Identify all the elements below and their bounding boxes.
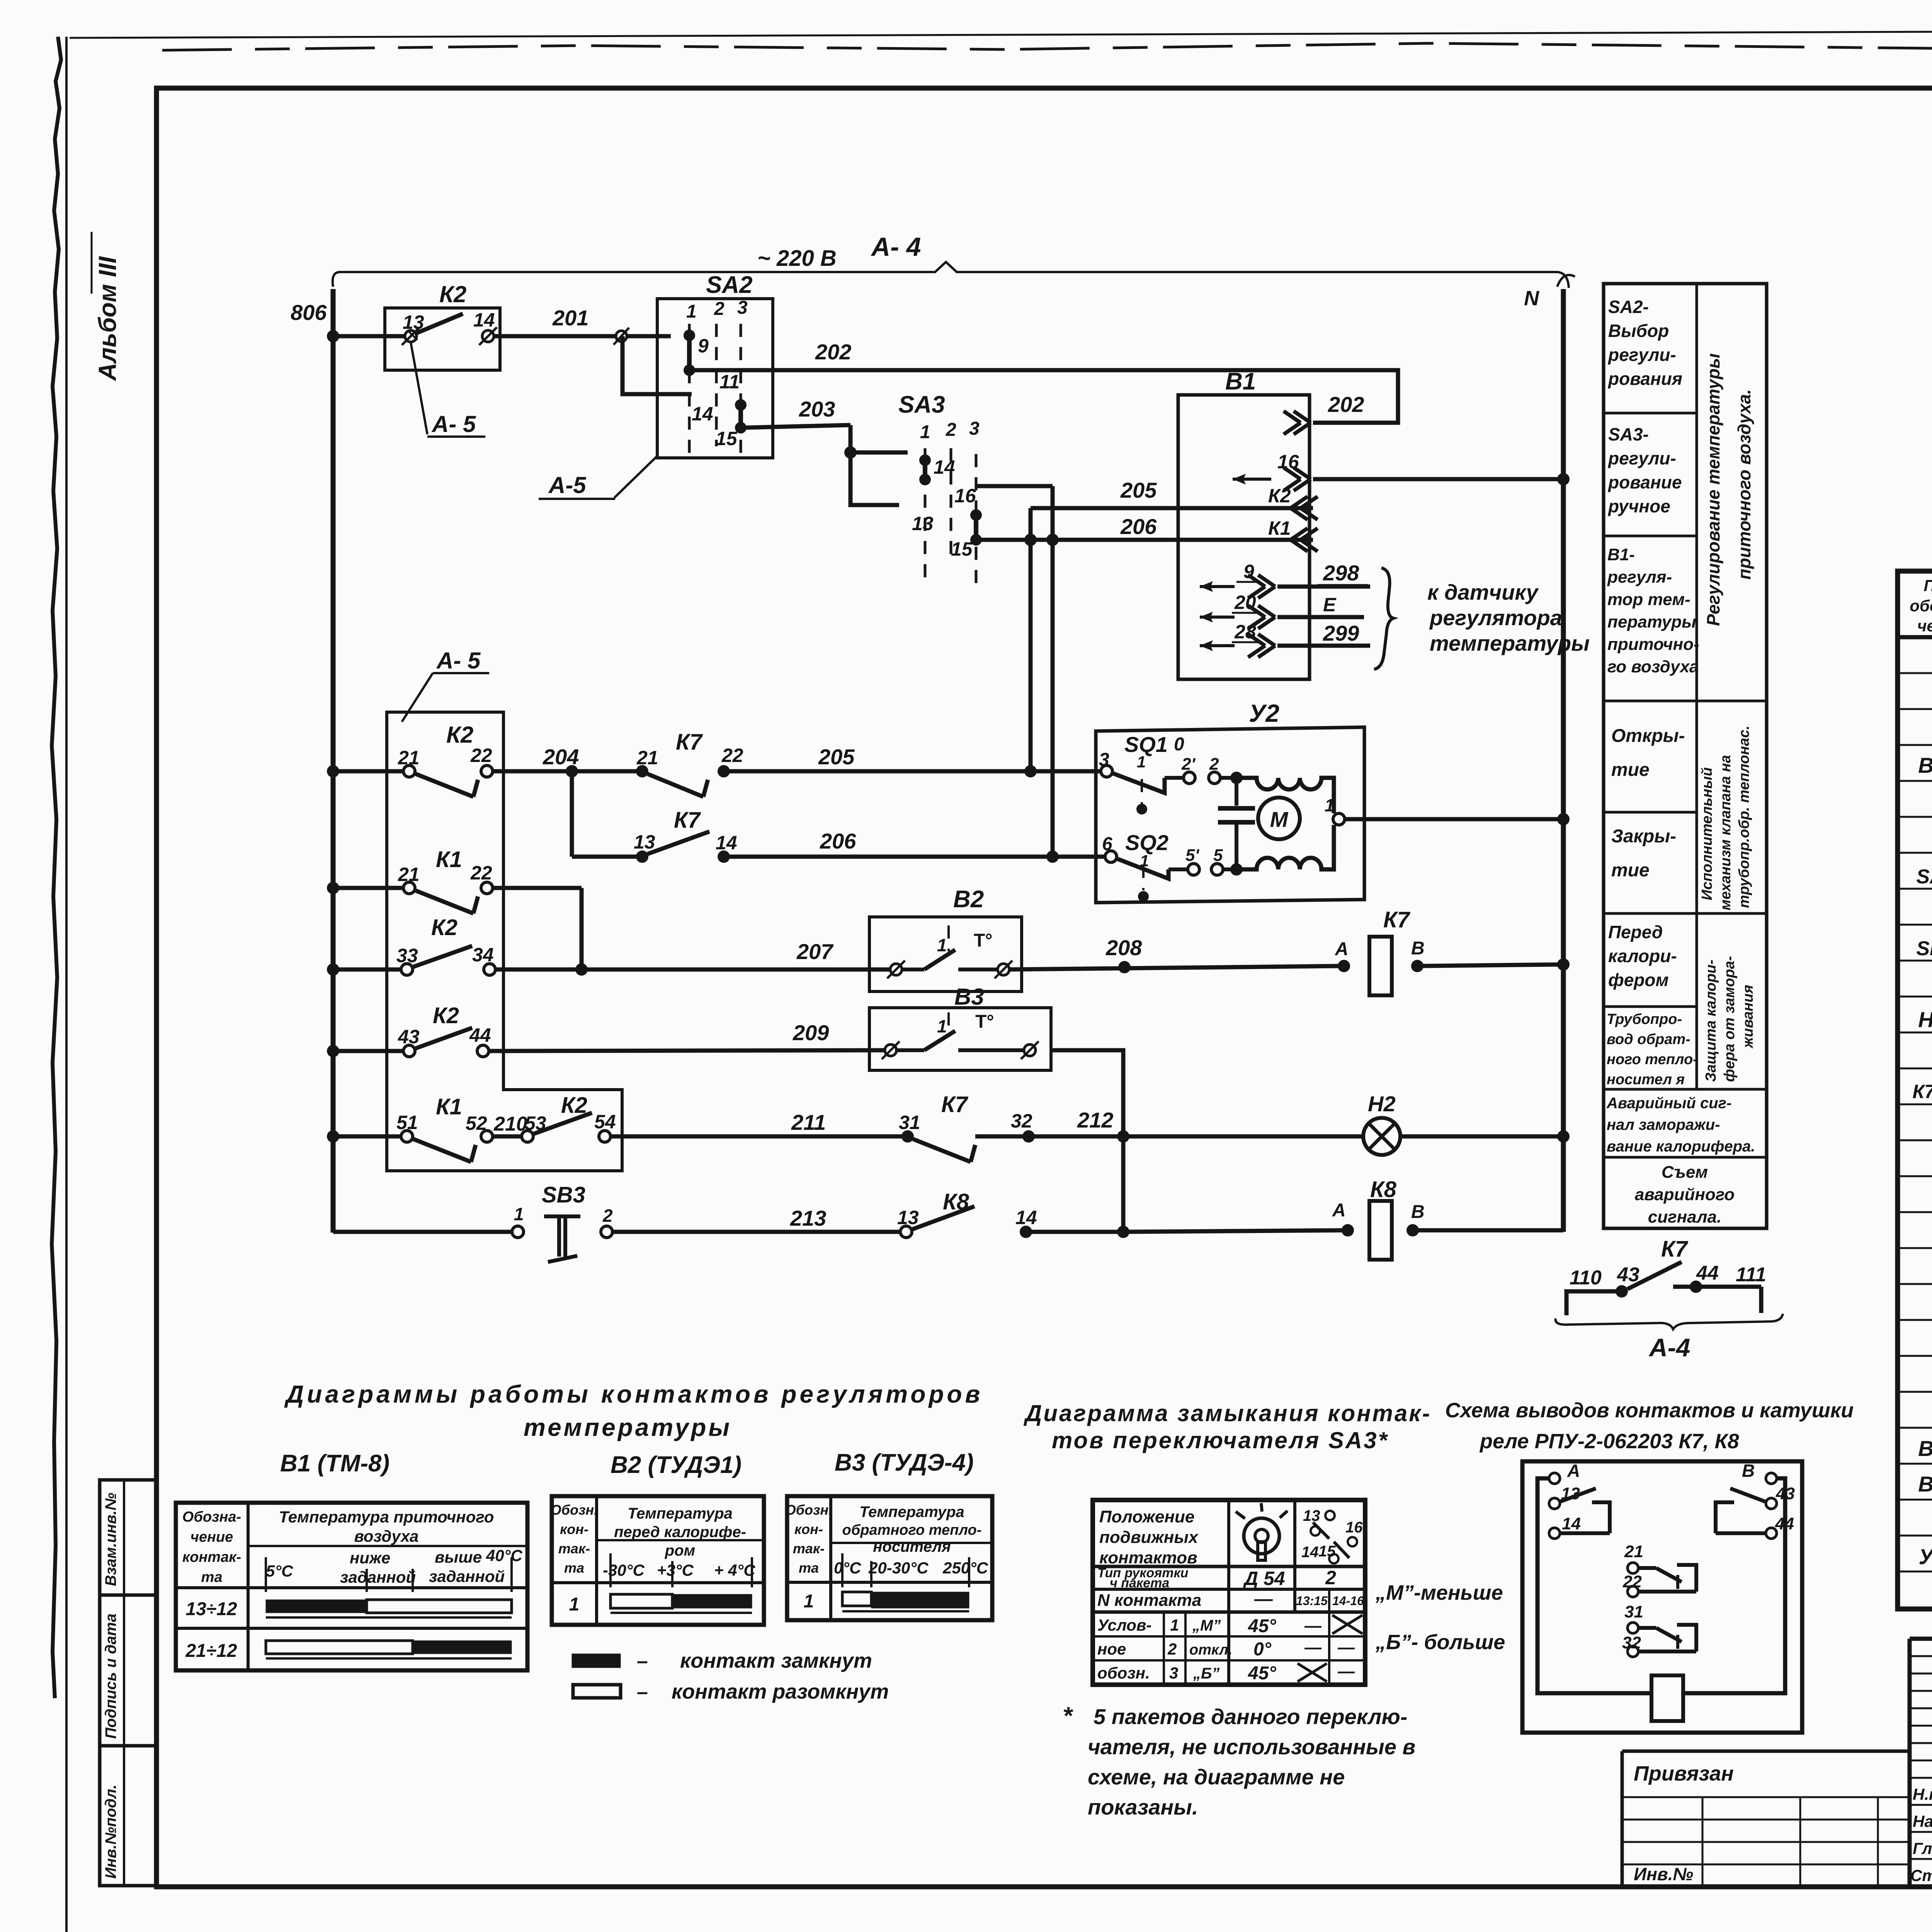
- svg-text:Подпись и дата: Подпись и дата: [102, 1614, 119, 1739]
- svg-text:SА3: SА3: [1916, 866, 1932, 888]
- wire 201: [526, 334, 671, 338]
- SA2 contact col3: [735, 399, 747, 411]
- wire 209: [489, 1050, 890, 1051]
- svg-text:1: 1: [937, 1016, 947, 1036]
- svg-text:20: 20: [1234, 592, 1256, 613]
- svg-text:тие: тие: [1611, 860, 1650, 881]
- svg-text:А: А: [1332, 1200, 1346, 1221]
- svg-text:11: 11: [719, 371, 740, 393]
- svg-text:43: 43: [398, 1026, 420, 1048]
- svg-text:14: 14: [716, 832, 737, 854]
- svg-text:14: 14: [1562, 1514, 1581, 1533]
- svg-text:213: 213: [790, 1206, 826, 1230]
- rung4 wire from bus: [333, 1049, 403, 1053]
- svg-text:А- 5: А- 5: [431, 411, 476, 437]
- svg-text:3: 3: [1169, 1664, 1178, 1682]
- svg-text:~ 220 В: ~ 220 В: [757, 246, 837, 271]
- svg-text:22: 22: [1622, 1572, 1642, 1591]
- B1 pin 28 output: [1200, 644, 1235, 647]
- svg-text:В2: В2: [953, 886, 984, 913]
- svg-text:5°С: 5°С: [266, 1562, 293, 1580]
- B2 diagram col line: [595, 1496, 598, 1625]
- svg-text:В2: В2: [1918, 1436, 1932, 1461]
- svg-text:У2: У2: [1918, 1544, 1932, 1569]
- svg-text:14: 14: [1015, 1207, 1037, 1228]
- svg-text:кон-: кон-: [560, 1521, 588, 1537]
- svg-text:перед калорифе-: перед калорифе-: [614, 1524, 746, 1541]
- svg-text:14: 14: [473, 309, 495, 331]
- svg-text:1: 1: [1170, 1616, 1179, 1634]
- svg-text:208: 208: [1105, 935, 1142, 960]
- svg-text:ром: ром: [665, 1542, 695, 1559]
- svg-text:806: 806: [291, 300, 327, 325]
- wire 202: [689, 370, 1398, 423]
- thermostat B3 box: [869, 1008, 1051, 1070]
- svg-text:Поз.: Поз.: [1924, 577, 1932, 595]
- SA3 diagram subcol lines: [1163, 1612, 1165, 1685]
- box А-5 around relay contacts: [387, 712, 622, 1171]
- svg-text:1: 1: [686, 301, 697, 322]
- SA3 contact 14 (col1): [919, 454, 931, 466]
- svg-text:А: А: [1335, 939, 1349, 959]
- svg-text:51: 51: [396, 1112, 418, 1133]
- contact K2 21-22: [403, 765, 415, 777]
- relay РПУ box: [1522, 1461, 1802, 1733]
- thermostat B2 box: [869, 917, 1022, 992]
- svg-text:28: 28: [1234, 621, 1256, 643]
- svg-text:—: —: [1304, 1638, 1322, 1657]
- svg-text:Д 54: Д 54: [1243, 1568, 1285, 1589]
- svg-text:Закры-: Закры-: [1611, 826, 1676, 847]
- svg-text:-30°С: -30°С: [603, 1561, 645, 1579]
- svg-text:А-4: А-4: [1648, 1333, 1690, 1362]
- svg-text:„Б”- больше: „Б”- больше: [1375, 1631, 1505, 1654]
- brace А-4 bottom: [1556, 1314, 1783, 1329]
- svg-text:0°С: 0°С: [834, 1559, 861, 1577]
- B3 diagram header bottom: [787, 1581, 992, 1584]
- title block sig rows: [1910, 1777, 1932, 1779]
- SA3 contact 15 (col3): [970, 509, 982, 521]
- svg-text:В3: В3: [1918, 1472, 1932, 1496]
- function table row lines: [1604, 412, 1697, 415]
- wire 211: [611, 1134, 908, 1139]
- svg-text:та: та: [799, 1560, 819, 1576]
- svg-text:0°: 0°: [1253, 1639, 1272, 1660]
- svg-text:22: 22: [721, 745, 743, 766]
- svg-text:Защита калори-: Защита калори-: [1703, 959, 1719, 1082]
- contact 43-44 (РПУ): [1766, 1498, 1777, 1509]
- svg-text:*: *: [1063, 1702, 1073, 1730]
- SA3 mark row3: [1298, 1663, 1327, 1682]
- svg-text:К2: К2: [446, 722, 473, 748]
- svg-text:+ 4°С: + 4°С: [714, 1561, 755, 1579]
- lamp H2: [1363, 1118, 1400, 1155]
- contact 13-14 (РПУ): [1549, 1498, 1560, 1509]
- svg-text:В: В: [1742, 1461, 1755, 1481]
- B1 diagram header bottom: [176, 1586, 527, 1589]
- svg-text:2: 2: [1167, 1640, 1177, 1658]
- svg-text:204: 204: [543, 745, 579, 769]
- svg-text:1: 1: [920, 422, 930, 442]
- svg-text:2: 2: [714, 299, 724, 319]
- svg-text:SА2-: SА2-: [1608, 297, 1649, 317]
- svg-text:9: 9: [1243, 561, 1254, 582]
- svg-text:регулятора: регулятора: [1429, 605, 1562, 630]
- svg-text:9: 9: [698, 335, 709, 357]
- B1 pin 202 chevron: [1284, 411, 1311, 434]
- svg-text:обозн.: обозн.: [1097, 1664, 1150, 1682]
- svg-text:Перед: Перед: [1608, 922, 1663, 942]
- svg-text:110: 110: [1570, 1267, 1602, 1289]
- wire 205 horizontal: [1031, 506, 1313, 510]
- svg-text:34: 34: [472, 944, 494, 966]
- svg-text:К7: К7: [674, 808, 701, 833]
- contact 31-32 (РПУ): [1628, 1622, 1638, 1633]
- svg-text:контакт замкнут: контакт замкнут: [680, 1649, 872, 1672]
- svg-text:21÷12: 21÷12: [185, 1641, 237, 1661]
- svg-text:чателя, не использованные в: чателя, не использованные в: [1088, 1735, 1415, 1759]
- svg-text:202: 202: [815, 340, 851, 364]
- svg-text:21: 21: [1624, 1542, 1643, 1561]
- svg-text:31: 31: [899, 1112, 920, 1133]
- svg-text:SQ2: SQ2: [1125, 830, 1168, 855]
- svg-text:45°: 45°: [1248, 1616, 1276, 1636]
- svg-text:так-: так-: [558, 1541, 590, 1556]
- svg-text:5: 5: [1213, 846, 1223, 865]
- svg-text:В1 (ТМ-8): В1 (ТМ-8): [280, 1450, 389, 1477]
- capacitor: [1235, 778, 1238, 806]
- svg-text:К1: К1: [436, 1094, 462, 1119]
- svg-text:—: —: [1254, 1589, 1273, 1609]
- svg-text:16: 16: [1345, 1519, 1363, 1536]
- actuator У2 box: [1096, 727, 1364, 903]
- wire 213: [612, 1230, 900, 1234]
- svg-text:Обозн.: Обозн.: [785, 1502, 832, 1518]
- svg-text:15: 15: [951, 538, 973, 560]
- wire 16 to N: [1313, 477, 1563, 481]
- svg-text:20-30°С: 20-30°С: [868, 1559, 929, 1577]
- svg-text:1: 1: [514, 1204, 524, 1224]
- svg-text:—: —: [1337, 1638, 1355, 1657]
- svg-text:211: 211: [791, 1110, 826, 1134]
- title block left grid verticals: [1908, 1639, 1912, 1887]
- wire 207: [495, 968, 890, 972]
- B3 bar open: [842, 1592, 871, 1606]
- SQ2 terminal 6: [1105, 851, 1117, 862]
- svg-text:та: та: [201, 1569, 223, 1585]
- svg-text:В1: В1: [1225, 368, 1256, 395]
- svg-text:аварийного: аварийного: [1635, 1185, 1735, 1204]
- title block left grid rows: [1910, 1655, 1932, 1657]
- parts table header line: [1898, 635, 1932, 639]
- svg-text:носител я: носител я: [1607, 1071, 1685, 1088]
- svg-text:16: 16: [954, 485, 976, 507]
- SQ2 blade: [1117, 859, 1168, 879]
- svg-text:SА3: SА3: [898, 391, 945, 418]
- svg-text:22: 22: [470, 745, 492, 766]
- svg-text:207: 207: [796, 939, 834, 964]
- svg-text:31: 31: [1624, 1602, 1643, 1621]
- contact 21-22 (РПУ): [1628, 1563, 1638, 1573]
- svg-text:33: 33: [396, 945, 418, 966]
- svg-text:Альбом III: Альбом III: [94, 256, 121, 381]
- svg-text:202: 202: [1328, 392, 1364, 417]
- rung6 from bus corner: [333, 1230, 512, 1234]
- svg-text:205: 205: [1120, 478, 1157, 502]
- svg-text:Е: Е: [1323, 594, 1337, 616]
- svg-text:Т°: Т°: [975, 1012, 994, 1032]
- B3 diagram header split: [831, 1542, 992, 1544]
- B1 bar row2 open: [266, 1641, 413, 1654]
- svg-text:—: —: [1304, 1616, 1322, 1635]
- svg-text:В: В: [1411, 938, 1425, 959]
- svg-text:механизм клапана на: механизм клапана на: [1718, 755, 1734, 910]
- svg-text:регули-: регули-: [1607, 345, 1676, 365]
- svg-text:3: 3: [1099, 750, 1109, 770]
- svg-text:Услов-: Услов-: [1097, 1616, 1151, 1634]
- svg-text:SА3-: SА3-: [1608, 424, 1649, 444]
- wire У2-1 to N: [1345, 817, 1563, 821]
- svg-text:ниже: ниже: [350, 1549, 390, 1567]
- svg-text:воздуха: воздуха: [354, 1527, 419, 1545]
- pushbutton SB3: [512, 1226, 524, 1238]
- svg-text:–: –: [637, 1681, 648, 1703]
- svg-text:обозна-: обозна-: [1910, 597, 1932, 615]
- svg-text:40°С: 40°С: [486, 1546, 523, 1565]
- svg-text:тов переключателя SА3*: тов переключателя SА3*: [1052, 1427, 1389, 1453]
- parts table row lines: [1898, 672, 1932, 674]
- svg-text:206: 206: [820, 829, 856, 853]
- svg-text:„М”: „М”: [1192, 1617, 1221, 1634]
- wire to 204 junction: [493, 769, 572, 774]
- svg-text:К8: К8: [943, 1189, 969, 1214]
- B3 bar ticks: [841, 1553, 844, 1587]
- left thin border line: [65, 37, 68, 1932]
- B1 diagram outer: [176, 1503, 527, 1670]
- wire 203: [741, 425, 850, 428]
- svg-text:А- 4: А- 4: [871, 232, 921, 262]
- svg-text:Температура: Температура: [628, 1505, 733, 1522]
- svg-text:Обозн.: Обозн.: [551, 1502, 598, 1518]
- legend open swatch: [573, 1685, 621, 1698]
- svg-text:SВ3: SВ3: [1916, 937, 1932, 960]
- svg-text:14: 14: [1301, 1544, 1319, 1561]
- svg-text:температуры: температуры: [524, 1413, 732, 1441]
- svg-text:Температура: Температура: [859, 1503, 964, 1520]
- top paper edge lines: [70, 29, 1932, 38]
- SQ1 blade: [1112, 773, 1165, 793]
- svg-text:N контакта: N контакта: [1097, 1591, 1201, 1610]
- svg-text:205: 205: [818, 745, 855, 769]
- svg-text:SВ3: SВ3: [542, 1182, 585, 1207]
- svg-text:заданной: заданной: [429, 1567, 505, 1585]
- svg-text:нал заморажи-: нал заморажи-: [1607, 1116, 1720, 1133]
- svg-text:22: 22: [470, 862, 492, 884]
- svg-text:Исполнительный: Исполнительный: [1699, 767, 1715, 900]
- parts table outer: [1898, 571, 1932, 1609]
- svg-text:250°С: 250°С: [942, 1559, 988, 1577]
- svg-text:К7,К8: К7,К8: [1913, 1081, 1932, 1102]
- aux contact К7 (110-43-44-111): [1566, 1291, 1622, 1315]
- svg-text:43: 43: [1776, 1484, 1795, 1503]
- bus bracket ~220V: [333, 262, 1569, 288]
- svg-text:кон-: кон-: [794, 1521, 823, 1537]
- svg-text:Гл.инж.: Гл.инж.: [1913, 1839, 1932, 1857]
- svg-text:реле РПУ-2-062203 К7, К8: реле РПУ-2-062203 К7, К8: [1479, 1430, 1739, 1453]
- svg-text:14: 14: [934, 456, 955, 478]
- svg-text:21: 21: [398, 747, 420, 769]
- svg-text:13: 13: [634, 831, 655, 853]
- svg-text:пературы: пературы: [1607, 612, 1696, 631]
- contact K1 51-52: [401, 1131, 413, 1142]
- svg-text:приточно-: приточно-: [1607, 635, 1699, 654]
- B2 diagram outer: [552, 1496, 764, 1625]
- svg-text:ручное: ручное: [1607, 496, 1670, 516]
- svg-text:К8: К8: [1370, 1177, 1397, 1202]
- svg-text:Трубопро-: Трубопро-: [1607, 1011, 1682, 1027]
- box around K2 13-14: [385, 308, 500, 370]
- svg-text:32: 32: [1011, 1110, 1032, 1132]
- function table divider: [1696, 284, 1698, 1089]
- wire 206 ladder: [724, 855, 1111, 859]
- contact K2 53-54: [522, 1131, 533, 1142]
- svg-text:Инв.№: Инв.№: [1634, 1864, 1693, 1884]
- svg-text:13:15: 13:15: [1296, 1594, 1328, 1608]
- svg-text:5 пакетов данного переклю-: 5 пакетов данного переклю-: [1094, 1704, 1408, 1729]
- svg-text:298: 298: [1323, 561, 1359, 585]
- wire down from 204: [570, 771, 574, 857]
- B2 bar ticks: [609, 1553, 612, 1587]
- knob symbol: [1244, 1518, 1279, 1554]
- svg-text:трубопр.обр. теплонас.: трубопр.обр. теплонас.: [1736, 726, 1752, 908]
- B1 diagram header split: [248, 1545, 527, 1547]
- contact K2 13-14: [405, 330, 417, 342]
- svg-text:„М”-меньше: „М”-меньше: [1375, 1581, 1503, 1604]
- svg-text:М: М: [1270, 807, 1289, 832]
- svg-text:подвижных: подвижных: [1099, 1528, 1199, 1547]
- svg-text:так-: так-: [793, 1541, 825, 1556]
- svg-text:Т°: Т°: [974, 930, 993, 951]
- svg-text:А: А: [1567, 1461, 1580, 1481]
- svg-text:вод обрат-: вод обрат-: [1607, 1031, 1690, 1048]
- relay inner loop: [1537, 1478, 1651, 1693]
- terminal В: [1766, 1473, 1777, 1484]
- svg-text:15: 15: [716, 428, 738, 449]
- svg-text:201: 201: [552, 306, 588, 330]
- svg-text:показаны.: показаны.: [1088, 1795, 1198, 1819]
- svg-text:21: 21: [398, 864, 420, 885]
- svg-text:К1: К1: [436, 847, 462, 872]
- svg-text:–: –: [637, 1650, 648, 1672]
- contact K7 21-22: [636, 765, 648, 777]
- SQ1 fixed contacts: [1165, 776, 1184, 780]
- B3 diagram outer: [787, 1496, 992, 1620]
- svg-text:к датчику: к датчику: [1427, 580, 1539, 604]
- svg-text:фера от замора-: фера от замора-: [1721, 956, 1738, 1082]
- svg-text:В1: В1: [1918, 753, 1932, 777]
- contact K1 21-22: [403, 882, 415, 894]
- function table outer: [1604, 284, 1767, 1228]
- svg-text:13÷12: 13÷12: [185, 1599, 237, 1619]
- svg-text:носителя: носителя: [873, 1538, 951, 1555]
- rung1 wire from bus: [333, 769, 403, 774]
- torn left paper edge: [52, 37, 61, 1698]
- brace to sensor: [1374, 568, 1393, 669]
- legend filled swatch: [572, 1654, 621, 1668]
- B1 bar row2 filled: [413, 1641, 512, 1654]
- svg-text:вание калорифера.: вание калорифера.: [1607, 1138, 1755, 1155]
- SA2 dashed columns: [688, 324, 691, 456]
- SA2 input branch: [622, 336, 692, 394]
- contact K8 13-14: [900, 1226, 912, 1238]
- svg-text:Взам.инв.№: Взам.инв.№: [102, 1493, 119, 1586]
- svg-text:К2: К2: [431, 915, 457, 940]
- svg-text:206: 206: [1120, 514, 1157, 539]
- contact K7 13-14: [572, 855, 642, 859]
- wire to K8 coil: [1123, 1230, 1342, 1232]
- coil К7: [1338, 960, 1350, 972]
- vertical A (205 to ladder): [1029, 508, 1033, 771]
- svg-text:Откры-: Откры-: [1611, 726, 1685, 746]
- svg-text:тие: тие: [1611, 760, 1650, 780]
- svg-text:регули-: регули-: [1607, 448, 1676, 468]
- привязан grid verticals: [1702, 1797, 1704, 1887]
- svg-text:приточного воздуха.: приточного воздуха.: [1734, 389, 1754, 580]
- leader А-5 from SA2: [614, 456, 657, 498]
- svg-text:3: 3: [969, 418, 980, 439]
- svg-text:0: 0: [1174, 734, 1184, 755]
- B1 pin 9 output: [1200, 585, 1235, 588]
- left stamp strip boxes: [100, 1480, 156, 1886]
- svg-text:—: —: [1337, 1662, 1355, 1681]
- wire bus to K2-13: [333, 334, 405, 338]
- phase mark on 201: [616, 331, 627, 342]
- B2 diagram header split: [597, 1539, 764, 1541]
- B1 diagram row line: [176, 1627, 527, 1630]
- svg-text:45°: 45°: [1248, 1663, 1276, 1684]
- svg-text:Ст.инж.: Ст.инж.: [1910, 1866, 1932, 1884]
- rung5 wire from bus: [333, 1134, 401, 1139]
- svg-text:1: 1: [1325, 795, 1335, 815]
- svg-text:1: 1: [569, 1594, 580, 1615]
- B3 diagram col line: [829, 1496, 832, 1620]
- привязан block top: [1622, 1750, 1910, 1753]
- svg-text:К7: К7: [1661, 1236, 1689, 1262]
- svg-text:13: 13: [1303, 1507, 1320, 1524]
- svg-text:К2: К2: [439, 281, 466, 307]
- wire lamp to N: [1400, 1134, 1563, 1139]
- svg-text:+3°С: +3°С: [657, 1561, 694, 1579]
- rung2 to rung3 drop: [493, 886, 582, 890]
- svg-text:13: 13: [897, 1207, 919, 1228]
- svg-text:схеме, на диаграмме не: схеме, на диаграмме не: [1088, 1765, 1345, 1789]
- svg-text:ного тепло-: ного тепло-: [1607, 1051, 1698, 1068]
- svg-text:2: 2: [1325, 1567, 1336, 1588]
- svg-text:сигнала.: сигнала.: [1648, 1207, 1721, 1226]
- motor coil bottom: [1236, 825, 1334, 869]
- B3 contact: [885, 1044, 896, 1056]
- svg-text:В3: В3: [954, 984, 984, 1010]
- B3 bar filled: [871, 1592, 969, 1608]
- contact K2 43-44: [403, 1045, 415, 1057]
- svg-text:А- 5: А- 5: [436, 648, 481, 673]
- SA3 diagram col lines: [1227, 1500, 1230, 1685]
- svg-text:53: 53: [525, 1112, 546, 1134]
- svg-text:У2: У2: [1249, 699, 1279, 727]
- svg-text:контактов: контактов: [1099, 1548, 1197, 1567]
- svg-text:2': 2': [1181, 755, 1196, 774]
- svg-text:44: 44: [1775, 1514, 1794, 1533]
